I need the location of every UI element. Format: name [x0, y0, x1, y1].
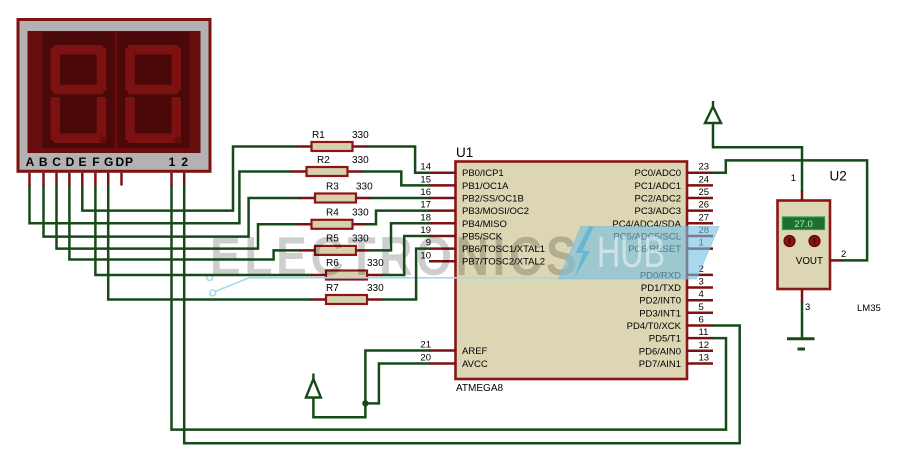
- LM35 trim knob right: [809, 236, 820, 247]
- svg-text:U1: U1: [456, 145, 473, 160]
- wire display pin2 to U1 PD4: [184, 187, 740, 444]
- svg-text:VOUT: VOUT: [796, 256, 823, 267]
- svg-text:R3: R3: [326, 182, 339, 193]
- svg-text:HUB: HUB: [597, 227, 665, 276]
- display glass panel: [28, 31, 201, 153]
- wire R2 to U1 pin15: [363, 172, 430, 186]
- svg-text:17: 17: [420, 200, 431, 211]
- svg-text:330: 330: [352, 155, 369, 166]
- wire R7 to U1 pin9: [383, 249, 430, 300]
- svg-text:16: 16: [420, 187, 431, 198]
- svg-text:PB2/SS/OC1B: PB2/SS/OC1B: [462, 194, 524, 205]
- U1 right pin stubs: [687, 173, 713, 364]
- power symbol bottom arrow: [306, 374, 321, 398]
- digit 2 cell: [117, 32, 189, 148]
- U1 right pin numbers: [699, 162, 710, 364]
- wire LM35 pin3 to ground: [801, 303, 804, 338]
- resistor R1: [296, 130, 370, 151]
- 7-segment display frame: [18, 20, 210, 172]
- svg-text:3: 3: [699, 277, 704, 288]
- svg-text:C: C: [52, 155, 61, 169]
- sensor U2 body (LM35): [778, 201, 831, 290]
- svg-text:PD5/T1: PD5/T1: [649, 334, 681, 345]
- wire R4 to U1 pin17: [368, 211, 430, 225]
- watermark blue band: [559, 227, 720, 280]
- digit 1 segments: [50, 45, 106, 143]
- svg-text:13: 13: [699, 353, 710, 364]
- svg-text:G: G: [104, 155, 113, 169]
- svg-text:PD3/INT1: PD3/INT1: [639, 308, 681, 319]
- svg-text:PB3/MOSI/OC2: PB3/MOSI/OC2: [462, 206, 529, 217]
- svg-text:2: 2: [841, 249, 846, 260]
- svg-text:12: 12: [699, 340, 710, 351]
- LM35 trim knob left: [784, 236, 795, 247]
- svg-text:D: D: [115, 155, 124, 169]
- svg-text:330: 330: [356, 182, 373, 193]
- svg-text:PC0/ADC0: PC0/ADC0: [635, 168, 681, 179]
- display pin letter labels: [26, 155, 189, 169]
- svg-text:24: 24: [699, 174, 710, 185]
- watermark cyan trace node circle A: [207, 275, 213, 281]
- wire display G to R7: [108, 187, 310, 300]
- svg-text:1: 1: [169, 155, 176, 169]
- digit 1 decimal point: [100, 137, 107, 144]
- U2 pin 3 stub: [801, 289, 804, 303]
- svg-text:11: 11: [699, 327, 709, 338]
- wire display pin1 to U1 PD5: [172, 187, 727, 430]
- watermark cyan trace line: [215, 278, 573, 292]
- svg-text:18: 18: [420, 212, 431, 223]
- U2 pin 1 stub: [801, 191, 804, 201]
- svg-text:B: B: [39, 155, 48, 169]
- wire R1 to U1 pin14: [368, 147, 430, 173]
- LM35 readout screen: [783, 217, 825, 230]
- svg-text:27: 27: [699, 212, 710, 223]
- svg-text:LM35: LM35: [857, 303, 881, 314]
- U1 left pin name labels: [462, 168, 545, 370]
- svg-text:P: P: [125, 155, 133, 169]
- svg-text:PC1/ADC1: PC1/ADC1: [635, 181, 681, 192]
- svg-text:3: 3: [805, 302, 810, 313]
- U1 right pin name labels: [612, 168, 681, 370]
- wire display B to R3: [44, 187, 300, 237]
- svg-text:1: 1: [791, 173, 796, 184]
- resistor R6: [311, 258, 385, 280]
- svg-text:25: 25: [699, 187, 710, 198]
- svg-text:PD6/AIN0: PD6/AIN0: [639, 346, 681, 357]
- svg-text:PD1/TXD: PD1/TXD: [641, 283, 681, 294]
- resistor R3: [299, 182, 373, 203]
- svg-text:PC2/ADC2: PC2/ADC2: [635, 194, 681, 205]
- wire U1 AVCC branch: [365, 364, 429, 404]
- svg-text:PD4/T0/XCK: PD4/T0/XCK: [627, 321, 682, 332]
- svg-text:5: 5: [699, 302, 704, 313]
- watermark lightning bolt: [574, 227, 594, 279]
- wire display E to R1: [82, 147, 295, 211]
- ground symbol: [787, 339, 815, 349]
- wire U1 PC0 to LM35 VOUT: [713, 160, 867, 260]
- wire R6 to U1 pin19: [383, 236, 430, 275]
- wire R3 to U1 pin16: [371, 197, 429, 200]
- resistor R5: [299, 234, 371, 255]
- resistor R7: [311, 283, 385, 304]
- svg-text:R2: R2: [317, 155, 330, 166]
- U2 pin 2 stub: [830, 259, 843, 262]
- watermark cyan trace node circle B: [210, 290, 216, 296]
- svg-text:PC3/ADC3: PC3/ADC3: [635, 206, 681, 217]
- svg-text:PD2/INT0: PD2/INT0: [639, 296, 681, 307]
- resistor R2: [291, 155, 370, 176]
- svg-text:R1: R1: [312, 130, 325, 141]
- svg-text:ATMEGA8: ATMEGA8: [456, 383, 503, 394]
- svg-text:F: F: [92, 155, 99, 169]
- svg-text:6: 6: [699, 315, 704, 326]
- svg-text:2: 2: [181, 155, 188, 169]
- digit 1 cell: [42, 32, 114, 148]
- microcontroller U1 body (ATMEGA8): [456, 162, 688, 380]
- svg-text:PD7/AIN1: PD7/AIN1: [639, 359, 681, 370]
- svg-text:R4: R4: [326, 208, 339, 219]
- svg-text:PB0/ICP1: PB0/ICP1: [462, 168, 504, 179]
- digit 2 segments: [125, 45, 181, 143]
- U1 left pin numbers: [420, 162, 431, 364]
- svg-text:PB1/OC1A: PB1/OC1A: [462, 181, 509, 192]
- svg-text:21: 21: [420, 340, 431, 351]
- svg-text:26: 26: [699, 200, 710, 211]
- power symbol top arrow: [705, 101, 721, 123]
- wire display A to R2: [30, 172, 291, 224]
- svg-text:330: 330: [352, 130, 369, 141]
- svg-text:330: 330: [352, 208, 369, 219]
- svg-text:AREF: AREF: [462, 346, 488, 357]
- U1 left pin stubs: [429, 173, 456, 364]
- resistor R4: [296, 208, 370, 229]
- wire display D to R5: [69, 187, 299, 260]
- svg-text:14: 14: [420, 162, 431, 173]
- svg-text:4: 4: [699, 289, 704, 300]
- svg-text:27.0: 27.0: [794, 219, 813, 230]
- svg-text:AVCC: AVCC: [462, 359, 488, 370]
- wire R5 to U1 pin18: [371, 223, 429, 250]
- wire power arrow to LM35 pin1: [713, 124, 802, 191]
- wire display F to R6: [95, 187, 310, 275]
- svg-text:U2: U2: [830, 169, 847, 184]
- svg-text:D: D: [66, 155, 75, 169]
- svg-text:23: 23: [699, 162, 710, 173]
- wire display C to R4: [57, 187, 296, 249]
- digit 2 decimal point: [175, 137, 182, 144]
- svg-text:20: 20: [420, 353, 431, 364]
- wire U1 AREF to power arrow: [313, 351, 429, 418]
- node junction dot AREF/AVCC: [362, 400, 368, 406]
- svg-text:E: E: [78, 155, 86, 169]
- display pin stubs: [30, 173, 185, 187]
- svg-text:15: 15: [420, 174, 431, 185]
- svg-text:A: A: [26, 155, 35, 169]
- display DP pin stub: [120, 173, 123, 186]
